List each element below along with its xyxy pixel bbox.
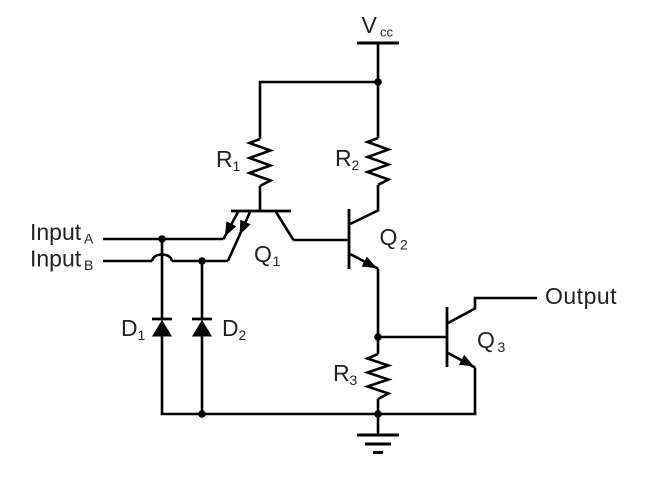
power symbol Vcc — [357, 43, 399, 82]
svg-text:Q: Q — [380, 224, 398, 250]
label R1 — [216, 146, 241, 174]
svg-text:R: R — [335, 145, 352, 171]
label Vcc — [362, 12, 394, 40]
resistor R3 — [368, 337, 389, 414]
diode D1 — [152, 239, 172, 414]
wire R1 to Q1 base — [259, 186, 262, 211]
label Input B — [30, 246, 93, 274]
svg-text:V: V — [362, 12, 378, 38]
label R3 — [333, 360, 358, 388]
svg-text:Q: Q — [477, 327, 495, 353]
resistor R1 — [250, 139, 271, 186]
node Vcc rail junction — [374, 78, 382, 86]
svg-text:Output: Output — [545, 283, 617, 309]
node Q2 emitter / R3 / Q3 base junction — [374, 333, 382, 341]
node Input B / D2 junction — [198, 257, 206, 265]
svg-text:D: D — [222, 315, 239, 341]
transistor Q2 — [349, 209, 379, 273]
svg-text:cc: cc — [380, 25, 394, 40]
wire Input B (with hop over D1 line) — [103, 254, 228, 261]
resistor R2 — [368, 138, 389, 185]
wire Q2 emitter down to R3 node — [377, 269, 380, 338]
wire R2 top branch — [377, 82, 380, 138]
label R2 — [335, 145, 360, 173]
svg-text:B: B — [84, 257, 93, 273]
wire node to Q3 base — [378, 336, 447, 339]
svg-text:1: 1 — [138, 327, 146, 343]
svg-text:R: R — [333, 360, 350, 386]
label Q1 — [254, 241, 281, 269]
svg-text:2: 2 — [352, 157, 360, 173]
label Q3 — [477, 327, 506, 355]
svg-text:3: 3 — [498, 339, 506, 355]
wire bottom rail — [161, 413, 477, 416]
transistor Q3 — [447, 298, 537, 414]
node Input A / D1 junction — [158, 235, 166, 243]
svg-text:1: 1 — [233, 158, 241, 174]
svg-text:2: 2 — [400, 237, 408, 253]
node D2 / bottom rail — [198, 410, 206, 418]
wire Q1 collector to Q2 base — [294, 239, 350, 242]
svg-text:2: 2 — [239, 327, 247, 343]
wire Vcc rail to R1 — [260, 82, 378, 139]
node R3 / bottom rail — [374, 410, 382, 418]
svg-text:Input: Input — [30, 246, 82, 272]
label Q2 — [380, 224, 409, 253]
svg-text:Q: Q — [254, 241, 272, 267]
svg-text:Input: Input — [30, 219, 82, 245]
label Output — [545, 283, 617, 309]
wire R2 to Q2 collector — [377, 185, 380, 212]
diode D2 — [192, 261, 212, 414]
transistor Q1 (dual emitter) — [220, 211, 294, 261]
svg-text:A: A — [84, 231, 94, 247]
svg-text:R: R — [216, 146, 233, 172]
label Input A — [30, 219, 94, 247]
svg-text:3: 3 — [350, 372, 358, 388]
label D2 — [222, 315, 247, 343]
wire Input A — [103, 238, 224, 241]
ground — [357, 414, 399, 453]
svg-text:D: D — [121, 315, 138, 341]
svg-text:1: 1 — [273, 253, 281, 269]
label D1 — [121, 315, 146, 343]
